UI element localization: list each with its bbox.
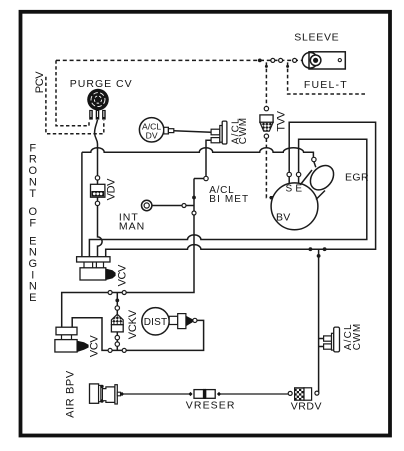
svg-text:E: E <box>29 292 36 304</box>
svg-text:I: I <box>31 269 34 281</box>
svg-text:MAN: MAN <box>119 221 145 233</box>
wire: VCV port4 to BV port S (outer loop) <box>106 122 376 257</box>
node: inline connector on INT MAN wire <box>182 204 186 208</box>
svg-text:CWM: CWM <box>238 117 249 144</box>
svg-text:DIST: DIST <box>144 317 168 328</box>
BV sphere <box>271 183 318 230</box>
VRDV component <box>295 388 312 400</box>
VCKV component <box>111 314 123 332</box>
wire: long vertical x=194 down, left along y=292.5, down to lower VCV port1 <box>62 179 194 328</box>
svg-text:N: N <box>29 176 37 188</box>
EGR diaphragm ellipse <box>306 161 339 195</box>
svg-text:PCV: PCV <box>34 71 46 93</box>
junction dot on dashed bus <box>258 59 262 63</box>
wire: bus left end down to VCV port1 <box>81 152 83 256</box>
stub from bus to ellipse <box>314 162 316 168</box>
wire: VRESER to VRDV <box>220 393 289 395</box>
label FRONT OF ENGINE (stacked) <box>29 142 38 304</box>
wire: VCV port2 to BV port E (inner loop) <box>89 139 366 257</box>
svg-text:BV: BV <box>276 211 290 223</box>
wire: right side vertical to lower A/CL CWM and VRDV <box>319 249 324 393</box>
svg-text:SE: SE <box>286 183 306 194</box>
svg-text:O: O <box>29 165 38 177</box>
dashed wire: branch down to FUEL-T <box>288 62 367 94</box>
node: square tap on BV body <box>270 196 273 199</box>
svg-text:CWM: CWM <box>352 323 363 350</box>
TVV component <box>260 106 273 138</box>
node: inline connectors on y=292.5 run <box>108 291 112 295</box>
wire: AIR BPV to VRESER <box>123 393 190 395</box>
node: connectors on dashed bus <box>271 58 275 62</box>
svg-text:T: T <box>29 188 36 200</box>
wire: VCKV chain from y=292.5 tee <box>116 293 118 351</box>
node: connectors below VCKV <box>115 335 119 339</box>
wire: lower run y=350.4 from VCV port2 loop to DIST <box>72 318 203 351</box>
node: VRDV right connector <box>315 391 319 395</box>
node: EGR port connector <box>312 157 316 161</box>
node: connector below VDV <box>95 201 99 205</box>
node: inline connectors on y=350.4 run <box>108 348 112 352</box>
wire: stub E to BV body <box>298 177 300 184</box>
svg-text:R: R <box>29 154 37 166</box>
svg-text:O: O <box>29 206 38 218</box>
node: A/CL BI MET connector <box>204 176 208 180</box>
node: connector above VDV <box>95 176 99 180</box>
VCV upper component <box>77 257 116 280</box>
sleeve component <box>302 52 345 69</box>
VCV lower component <box>55 327 89 352</box>
EGR / BV assembly <box>271 157 338 229</box>
junction dot below tee <box>115 299 119 303</box>
svg-text:DV: DV <box>146 131 158 141</box>
A/CL DV component <box>139 118 173 142</box>
A/CL CWM upper component <box>211 121 227 144</box>
wire: A/CL CWM nipple2 down to A/CL BI MET port <box>206 140 211 176</box>
svg-text:VCV: VCV <box>88 335 100 357</box>
dashed wire: TVV bottom to BV body <box>266 138 269 197</box>
svg-text:VCKV: VCKV <box>127 309 139 339</box>
wire: PURGE CV middle nipple down through VDV to VCV port3 <box>95 120 103 257</box>
cone lines <box>301 170 326 200</box>
svg-text:VRESER: VRESER <box>186 400 236 412</box>
svg-text:SLEEVE: SLEEVE <box>294 31 339 43</box>
PURGE CV component <box>87 89 109 120</box>
junction dot on vertical <box>192 196 196 200</box>
svg-text:N: N <box>29 281 37 293</box>
wire: A/CL DV to A/CL CWM <box>174 131 211 133</box>
wire: BI MET branch to long vertical <box>194 178 204 180</box>
svg-text:N: N <box>29 247 37 259</box>
wire: INT MAN to vertical <box>152 205 194 207</box>
svg-text:BI MET: BI MET <box>209 194 249 205</box>
svg-text:E: E <box>29 235 36 247</box>
AIR BPV component <box>90 384 125 404</box>
node: BV port E connector <box>296 172 300 176</box>
DIST component <box>142 308 193 335</box>
svg-text:AIR BPV: AIR BPV <box>64 370 76 418</box>
node: VRDV left connector <box>288 391 292 395</box>
wire: main carburetor bus y=152 <box>82 148 314 158</box>
node: connector above VCKV <box>115 306 119 310</box>
VRESER component <box>188 389 221 399</box>
VDV component <box>91 184 105 197</box>
svg-text:VRDV: VRDV <box>291 400 322 412</box>
svg-text:EGR: EGR <box>345 171 369 183</box>
svg-text:F: F <box>29 142 36 154</box>
wire: stub S to BV body <box>288 177 290 184</box>
A/CL CWM lower component <box>324 327 340 352</box>
dashed wire: PCV box to sleeve <box>56 59 302 61</box>
dashed wire: branch down to TVV <box>265 62 267 106</box>
svg-text:G: G <box>29 258 38 270</box>
node: DIST connector circle <box>193 318 197 322</box>
svg-text:PURGE CV: PURGE CV <box>70 78 133 90</box>
svg-text:TVV: TVV <box>275 110 287 131</box>
svg-text:FUEL-T: FUEL-T <box>304 79 348 91</box>
node: BV port S connector <box>287 172 291 176</box>
svg-text:VCV: VCV <box>116 264 128 286</box>
dashed wire: PCV label to PURGE CV right nipple <box>46 77 104 134</box>
node: inline connector on vertical <box>192 211 196 215</box>
svg-text:VDV: VDV <box>105 178 117 200</box>
INT MAN port <box>142 200 152 210</box>
dashed wire: left leg down to PURGE CV left nipple <box>56 60 89 125</box>
junction dots on outer loop bottom <box>309 247 313 251</box>
svg-text:F: F <box>29 218 36 230</box>
